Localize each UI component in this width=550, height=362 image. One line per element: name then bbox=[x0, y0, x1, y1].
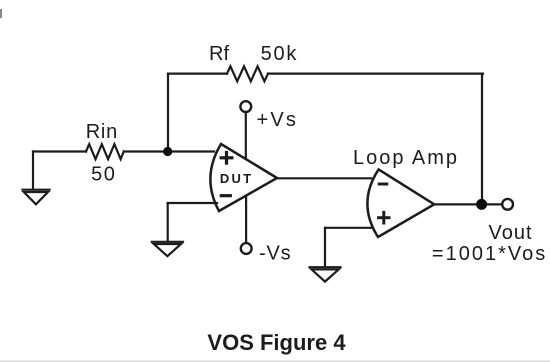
terminal -Vs bbox=[241, 243, 252, 254]
svg-text:50: 50 bbox=[91, 164, 116, 186]
terminal +Vs bbox=[240, 101, 251, 112]
svg-text:=1001*Vos: =1001*Vos bbox=[432, 243, 547, 265]
svg-text:DUT: DUT bbox=[220, 171, 253, 186]
label 50k bbox=[261, 43, 299, 65]
wire: left stub down to ground G1 bbox=[32, 152, 34, 190]
svg-text:VOS Figure 4: VOS Figure 4 bbox=[207, 330, 346, 355]
svg-text:50k: 50k bbox=[261, 43, 299, 65]
svg-text:-Vs: -Vs bbox=[259, 242, 291, 264]
wire: left input horizontal left of Rin bbox=[33, 150, 86, 152]
label Loop Amp bbox=[353, 147, 459, 169]
wire: feedback right vertical drop to output node bbox=[481, 74, 483, 205]
wire: vertical down to ground G3 bbox=[324, 228, 326, 267]
label -Vs bbox=[259, 242, 291, 264]
U1 + input marker bbox=[221, 153, 232, 164]
scan artifact: top-left corner mark bbox=[0, 9, 2, 18]
svg-text:+Vs: +Vs bbox=[257, 109, 299, 131]
label +Vs bbox=[257, 109, 299, 131]
resistor Rin 50 zigzag bbox=[86, 144, 124, 159]
wire: +Vs supply drop into U1 bbox=[245, 113, 247, 159]
U1 label DUT bbox=[220, 171, 253, 186]
ground G2 bbox=[152, 242, 183, 256]
junction node A (summing node) bbox=[163, 147, 172, 156]
svg-text:Rin: Rin bbox=[86, 121, 118, 143]
terminal Vout open circle bbox=[502, 199, 513, 210]
svg-text:Rf: Rf bbox=[209, 43, 229, 65]
junction output node bbox=[476, 199, 487, 210]
svg-text:Loop Amp: Loop Amp bbox=[353, 147, 459, 169]
op-amp U1 DUT body bbox=[210, 144, 277, 211]
U2 + input marker bbox=[379, 212, 389, 223]
wire: DUT - input horizontal bbox=[168, 202, 217, 204]
wire: -Vs supply drop from U1 bbox=[245, 197, 247, 243]
resistor Rf 50k zigzag bbox=[227, 66, 268, 81]
svg-text:Vout: Vout bbox=[488, 222, 532, 244]
wire: U2 + input horizontal bbox=[325, 227, 372, 229]
label Rin bbox=[86, 121, 118, 143]
ground G1 bbox=[23, 190, 50, 205]
ground G3 bbox=[310, 267, 341, 281]
label Rf bbox=[209, 43, 229, 65]
wire: top feedback horizontal right segment bbox=[268, 72, 483, 74]
U1 - input marker bbox=[221, 194, 230, 197]
wire: top feedback horizontal left segment bbox=[168, 72, 227, 74]
caption VOS Figure 4 bbox=[207, 330, 346, 355]
label Vout bbox=[488, 222, 532, 244]
scan artifact: faint bottom edge line bbox=[0, 361, 550, 362]
wire: U1 output to U2 - input bbox=[277, 177, 371, 179]
op-amp U2 Loop Amp body bbox=[367, 169, 434, 237]
label 50 bbox=[91, 164, 116, 186]
wire: input horizontal from Rin to DUT + input bbox=[124, 150, 214, 152]
U2 - input marker bbox=[379, 183, 387, 186]
label =1001*Vos bbox=[432, 243, 547, 265]
wire: vertical down to ground G2 bbox=[167, 203, 169, 242]
wire: feedback left vertical drop to input node bbox=[167, 74, 169, 152]
wire: U2 output to Vout terminal bbox=[434, 203, 502, 205]
